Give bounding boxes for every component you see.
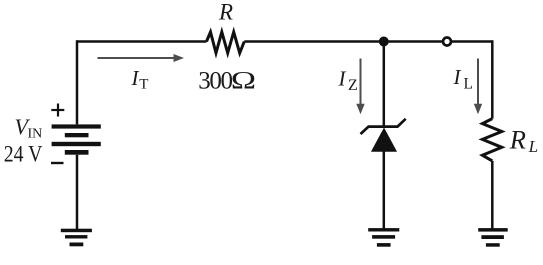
- zener diode D1 cathode bar with bent ends: [361, 119, 406, 134]
- svg-text:R: R: [218, 0, 233, 25]
- svg-text:IN: IN: [28, 127, 43, 142]
- open terminal circle: [443, 38, 451, 46]
- wire middle vertical from zener to ground: [383, 151, 386, 229]
- svg-text:R: R: [509, 124, 526, 154]
- svg-text:Z: Z: [348, 77, 358, 94]
- node junction dot: [379, 37, 389, 47]
- svg-text:I: I: [131, 66, 140, 90]
- svg-text:300: 300: [198, 68, 232, 95]
- ground middle: [368, 228, 399, 247]
- ground left: [61, 229, 92, 247]
- wire top-left horizontal from source to R: [77, 40, 207, 43]
- svg-text:I: I: [453, 65, 462, 89]
- current arrow IT: [98, 54, 185, 62]
- wire middle vertical from node to zener: [383, 42, 386, 127]
- plus sign: [51, 104, 64, 117]
- wire left vertical from battery to ground: [76, 155, 79, 229]
- battery VIN plates: [52, 124, 101, 154]
- current arrow IZ: [356, 59, 364, 115]
- ground right: [478, 228, 508, 247]
- svg-text:24 V: 24 V: [4, 141, 43, 167]
- wire top horizontal from R to node: [244, 40, 442, 43]
- wire top horizontal from terminal to right corner: [452, 40, 493, 43]
- current arrow IL: [474, 59, 482, 115]
- zener diode D1 anode triangle: [372, 129, 396, 152]
- svg-text:L: L: [464, 76, 473, 93]
- svg-text:I: I: [338, 67, 347, 91]
- svg-text:T: T: [139, 77, 148, 93]
- wire right vertical from RL to ground: [491, 161, 494, 229]
- resistor R: [207, 32, 245, 53]
- svg-text:L: L: [528, 137, 538, 156]
- minus sign: [51, 162, 64, 164]
- wire left vertical from corner to battery: [76, 40, 79, 124]
- resistor RL: [482, 119, 501, 161]
- svg-text:Ω: Ω: [230, 67, 256, 95]
- wire right vertical from corner to RL: [491, 40, 494, 118]
